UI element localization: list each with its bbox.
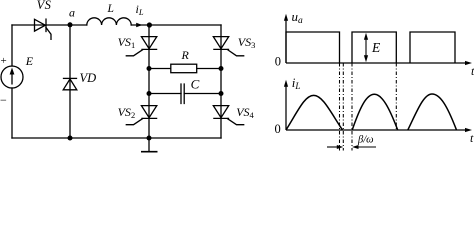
capacitor C plates — [181, 84, 184, 104]
thyristor VS2 gate — [126, 119, 142, 125]
wire VD branch — [69, 25, 71, 138]
ground — [148, 138, 150, 152]
node dot right leg C — [219, 91, 224, 96]
iL hump 2 — [352, 94, 398, 130]
thyristor VS4 cathode bar — [214, 117, 229, 119]
thyristor VS1 triangle — [141, 37, 156, 49]
node dot right leg R — [219, 66, 224, 71]
thyristor VS gate — [46, 28, 51, 40]
node dot left leg C — [147, 91, 152, 96]
svg-text:VD: VD — [80, 71, 97, 85]
node junction dot top — [147, 22, 152, 27]
node a dot — [68, 22, 73, 27]
ua pulse 3 — [410, 32, 455, 63]
wire bridge left leg — [148, 25, 150, 138]
diode VD triangle — [63, 79, 77, 90]
iL hump 3 — [408, 94, 457, 130]
source E arrow — [10, 68, 15, 85]
ua pulse 2 — [352, 32, 396, 63]
ua plot x-axis — [286, 62, 468, 64]
svg-text:L: L — [107, 3, 114, 15]
iL hump 1 — [286, 95, 343, 130]
node dot bottom leg — [147, 136, 152, 141]
wire C branch right — [184, 93, 221, 95]
svg-text:+: + — [1, 55, 7, 67]
svg-text:VS: VS — [37, 0, 52, 12]
svg-text:E: E — [25, 54, 34, 68]
inductor L — [87, 18, 131, 25]
svg-text:β/ω: β/ω — [357, 135, 374, 146]
svg-text:−: − — [0, 93, 7, 107]
wire left vertical upper — [11, 25, 13, 66]
wire bottom rail — [12, 137, 221, 139]
dash-dot line pulse2 end — [395, 63, 397, 130]
thyristor VS2 triangle — [141, 106, 156, 118]
iL plot x-axis — [286, 129, 468, 131]
E dimension arrow — [364, 33, 368, 62]
svg-text:C: C — [191, 77, 200, 92]
node dot left leg R — [147, 66, 152, 71]
resistor R box — [171, 64, 197, 73]
ua plot y-axis — [285, 20, 287, 63]
dash-dot line hump1 end — [342, 63, 344, 151]
dash-dot line pulse2 start — [351, 63, 353, 151]
diode VD cathode bar — [64, 77, 77, 79]
node dot bottom VD — [68, 136, 73, 141]
wire R branch — [149, 68, 221, 70]
thyristor VS1 gate — [126, 50, 142, 56]
svg-text:a: a — [69, 5, 75, 19]
svg-text:0: 0 — [275, 122, 281, 136]
ground bar — [141, 151, 158, 153]
svg-text:0: 0 — [275, 55, 281, 69]
beta dimension right arrow — [352, 145, 376, 149]
wire top rail left — [12, 24, 87, 26]
thyristor VS2 cathode bar — [142, 117, 157, 119]
wire top rail right — [131, 24, 221, 26]
svg-text:R: R — [181, 48, 190, 62]
wire C branch left — [149, 93, 181, 95]
wire left vertical lower — [11, 88, 13, 138]
thyristor VS1 cathode bar — [142, 48, 157, 50]
thyristor VS4 gate — [228, 119, 244, 125]
current arrow iL — [136, 23, 142, 28]
source E circle — [1, 66, 23, 88]
ua pulse 1 — [286, 32, 340, 63]
svg-text:E: E — [371, 40, 381, 55]
wire bridge right leg — [220, 25, 222, 138]
thyristor VS triangle — [35, 19, 46, 31]
beta dimension left arrow — [327, 145, 343, 149]
iL plot y-axis — [285, 86, 287, 130]
thyristor VS4 triangle — [213, 106, 228, 118]
thyristor VS3 triangle — [213, 37, 228, 49]
thyristor VS3 cathode bar — [214, 48, 229, 50]
dash-dot line pulse1 end — [339, 63, 341, 151]
thyristor VS3 gate — [228, 50, 244, 56]
thyristor VS cathode bar — [45, 19, 47, 31]
